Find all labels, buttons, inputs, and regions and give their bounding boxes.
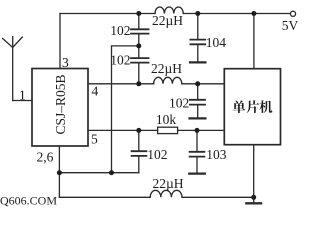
antenna [3,37,23,101]
ground bar C4 [190,117,206,119]
wire pin4 line [88,83,154,85]
ground bar C6 [189,173,205,175]
node pin4 junction 2 [195,81,200,86]
wire top rail [60,13,155,15]
svg-text:2,6: 2,6 [37,150,54,165]
svg-text:102: 102 [110,53,130,68]
wire top rail right [183,13,291,15]
svg-text:10k: 10k [156,112,177,127]
svg-text:22µH: 22µH [151,61,182,76]
capacitor C4 102 leads [197,84,199,118]
node pin5 junction 2 [195,128,200,133]
wire pin3 vertical [59,14,61,69]
ground symbol [253,197,255,203]
capacitor C1 102 plates [131,29,149,33]
wire ground bus [59,172,138,174]
ground bar C3 [190,61,205,63]
capacitor C5 102 leads [138,130,140,172]
node top rail junction 1 [136,11,141,16]
capacitor C2 102 leads [138,46,140,84]
capacitor C2 102 plates [131,58,149,63]
capacitor C5 102 plates [132,151,147,156]
wire 5V drop to MCU [253,14,255,69]
wire pin5 line right [178,129,225,131]
wire pin5 line left [88,129,158,131]
svg-text:5V: 5V [282,18,299,33]
box U1 CSJ-R05B [32,69,88,147]
node between C1 C2 [136,43,141,48]
capacitor C1 102 leads [138,14,140,46]
svg-text:104: 104 [206,35,227,50]
terminal 5V [290,11,295,16]
node ground bus mid [109,170,114,175]
capacitor C3 104 leads [197,14,199,62]
inductor L3 22uH [150,190,182,197]
wire bracket to ground line [112,46,139,173]
capacitor C6 103 plates [190,152,205,157]
svg-text:4: 4 [92,84,99,99]
svg-text:22µH: 22µH [152,176,183,191]
node pin4 junction 1 [136,81,141,86]
svg-text:3: 3 [62,55,69,70]
svg-text:22µH: 22µH [152,13,183,28]
wire pin4 line right [182,83,225,85]
node top rail junction 2 [195,11,200,16]
inductor L2 22uH [154,77,182,84]
wire bottom rail right [182,196,254,198]
wire bottom rail [59,196,150,198]
svg-text:102: 102 [169,96,189,111]
svg-text:103: 103 [206,147,227,162]
capacitor C3 104 plates [190,40,205,45]
svg-text:5: 5 [91,132,98,147]
label U2 danpianji [233,100,273,113]
svg-text:1: 1 [19,88,26,103]
wire pin2,6 vertical [58,146,60,173]
svg-text:102: 102 [110,23,130,38]
inductor L1 22uH [155,7,183,14]
node pin5 junction 1 [136,128,141,133]
node ground bus left [57,170,62,175]
wire MCU ground drop [253,145,255,198]
wire bottom left vertical [58,173,60,198]
svg-text:Q606.COM: Q606.COM [0,194,57,208]
wire pin1 [13,100,32,102]
capacitor C4 102 plates [190,100,205,105]
node bottom rail right [251,195,256,200]
svg-text:CSJ–R05B: CSJ–R05B [53,74,68,134]
box U2 MCU [224,69,280,145]
svg-text:102: 102 [147,147,167,162]
node top rail junction 3 [251,11,256,16]
resistor R1 10k body [158,127,178,133]
capacitor C6 103 leads [196,130,198,172]
